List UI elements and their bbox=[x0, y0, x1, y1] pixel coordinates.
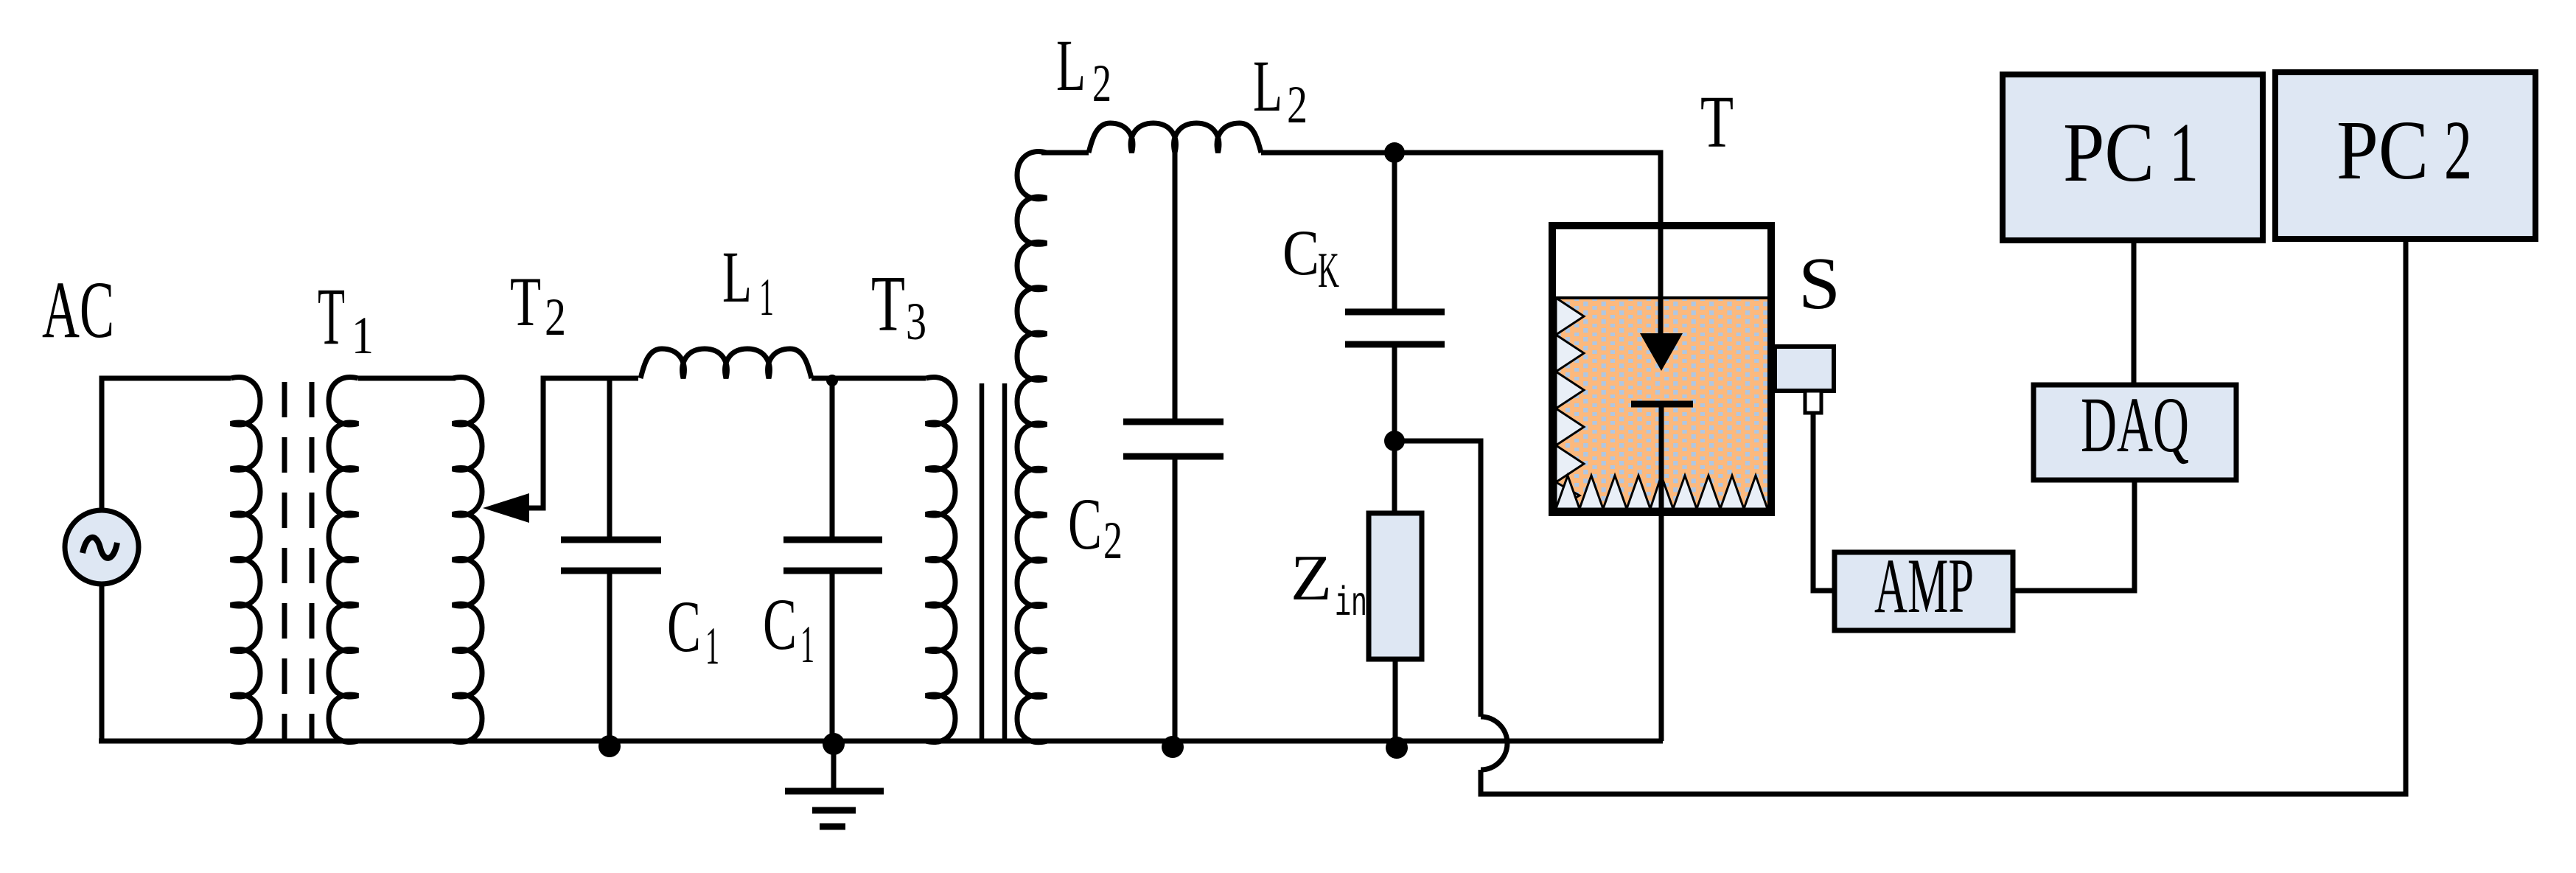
PC 1 box bbox=[2003, 74, 2263, 240]
wire DAQ to PC1 bbox=[2132, 240, 2137, 385]
T2 wiper arrow bbox=[483, 493, 529, 523]
svg-text:C: C bbox=[763, 583, 797, 665]
svg-text:K: K bbox=[1318, 242, 1339, 298]
AC source V1 bbox=[65, 510, 139, 584]
svg-text:PC: PC bbox=[2063, 105, 2154, 199]
node dot L1 right bbox=[826, 375, 838, 386]
node dot CK top bbox=[1384, 142, 1405, 163]
svg-text:T: T bbox=[871, 260, 905, 348]
autotransformer T2 winding bbox=[453, 378, 482, 742]
electrode plate bbox=[1631, 401, 1693, 408]
capacitor C1 right branch bbox=[830, 378, 835, 539]
svg-text:T: T bbox=[318, 271, 345, 361]
tank left absorber teeth bbox=[1556, 298, 1584, 509]
wire S to AMP bbox=[1813, 413, 1835, 591]
wire L1 to T3 bbox=[811, 376, 926, 381]
svg-text:L: L bbox=[1253, 45, 1282, 127]
svg-text:2: 2 bbox=[545, 288, 566, 347]
svg-text:2: 2 bbox=[1092, 54, 1111, 113]
svg-text:C: C bbox=[667, 585, 701, 667]
svg-text:1: 1 bbox=[800, 615, 814, 674]
svg-text:2: 2 bbox=[2444, 103, 2472, 197]
tank T body bbox=[1552, 226, 1771, 512]
svg-text:C: C bbox=[1282, 218, 1319, 289]
sensor S box bbox=[1775, 347, 1834, 391]
liquid surface line bbox=[1556, 296, 1767, 299]
sensor S tab bbox=[1805, 391, 1821, 413]
transformer T3 core bbox=[980, 383, 985, 741]
wire top rail to tank bbox=[1261, 153, 1661, 333]
inductor L1 bbox=[640, 349, 811, 378]
tank bottom absorber teeth bbox=[1556, 476, 1767, 509]
svg-text:1: 1 bbox=[759, 268, 774, 327]
node dot ground junction bbox=[823, 733, 845, 755]
svg-text:AC: AC bbox=[42, 265, 114, 355]
svg-text:DAQ: DAQ bbox=[2081, 382, 2189, 469]
svg-text:1: 1 bbox=[2169, 105, 2199, 199]
wire T2 wiper to L1 bbox=[526, 378, 638, 508]
transformer T3 secondary winding bbox=[1017, 152, 1047, 742]
wire AMP to DAQ bbox=[2013, 480, 2135, 591]
wire electrode to bottom rail bbox=[1659, 404, 1664, 741]
svg-text:Z: Z bbox=[1291, 543, 1332, 614]
electrode wire into tank bbox=[1658, 153, 1664, 333]
wire T3 secondary to L2 bbox=[1041, 150, 1089, 156]
svg-text:L: L bbox=[1056, 24, 1086, 106]
svg-text:2: 2 bbox=[1287, 75, 1308, 134]
PC 2 box bbox=[2275, 72, 2535, 239]
tank liquid bbox=[1556, 298, 1767, 509]
wire bottom rail bbox=[99, 739, 1663, 744]
svg-text:T: T bbox=[510, 262, 541, 341]
svg-text:AMP: AMP bbox=[1874, 543, 1974, 629]
transformer T1 secondary winding bbox=[329, 378, 358, 742]
wire CK junction to PC2 with hop bbox=[1395, 441, 1481, 717]
impedance Zin bbox=[1369, 513, 1422, 659]
svg-text:3: 3 bbox=[906, 292, 926, 351]
svg-text:1: 1 bbox=[352, 306, 374, 365]
transformer T1 core bbox=[282, 382, 287, 740]
capacitor CK bbox=[1392, 153, 1397, 311]
node dot C1 left bottom bbox=[598, 735, 621, 757]
node dot CK bottom junction bbox=[1384, 431, 1405, 451]
svg-text:T: T bbox=[1700, 80, 1734, 163]
svg-text:in: in bbox=[1335, 580, 1367, 627]
wire AC top bbox=[102, 378, 231, 510]
amplifier AMP box bbox=[1835, 552, 2013, 630]
capacitor C1 left branch bbox=[607, 378, 612, 539]
transformer T3 primary winding bbox=[926, 378, 955, 742]
capacitor C2 branch bbox=[1173, 153, 1178, 421]
node dot C2 bottom bbox=[1162, 736, 1184, 758]
wire Zin bottom bbox=[1393, 659, 1398, 741]
wire T1 secondary to T2 bbox=[358, 376, 455, 381]
svg-text:PC: PC bbox=[2336, 103, 2429, 197]
svg-text:C: C bbox=[1068, 483, 1102, 565]
transformer T1 primary winding bbox=[231, 378, 260, 742]
svg-text:1: 1 bbox=[705, 616, 719, 675]
node dot Zin bottom bbox=[1386, 737, 1408, 759]
wire AC bottom bbox=[100, 584, 105, 741]
DAQ box bbox=[2034, 385, 2236, 480]
svg-text:S: S bbox=[1798, 242, 1840, 324]
inductor L2 bbox=[1089, 123, 1261, 153]
ground bbox=[785, 741, 884, 827]
electrode arrow bbox=[1640, 333, 1683, 371]
svg-text:2: 2 bbox=[1103, 511, 1123, 570]
wire hop over bottom rail bbox=[1481, 717, 1507, 770]
svg-text:L: L bbox=[722, 236, 752, 318]
